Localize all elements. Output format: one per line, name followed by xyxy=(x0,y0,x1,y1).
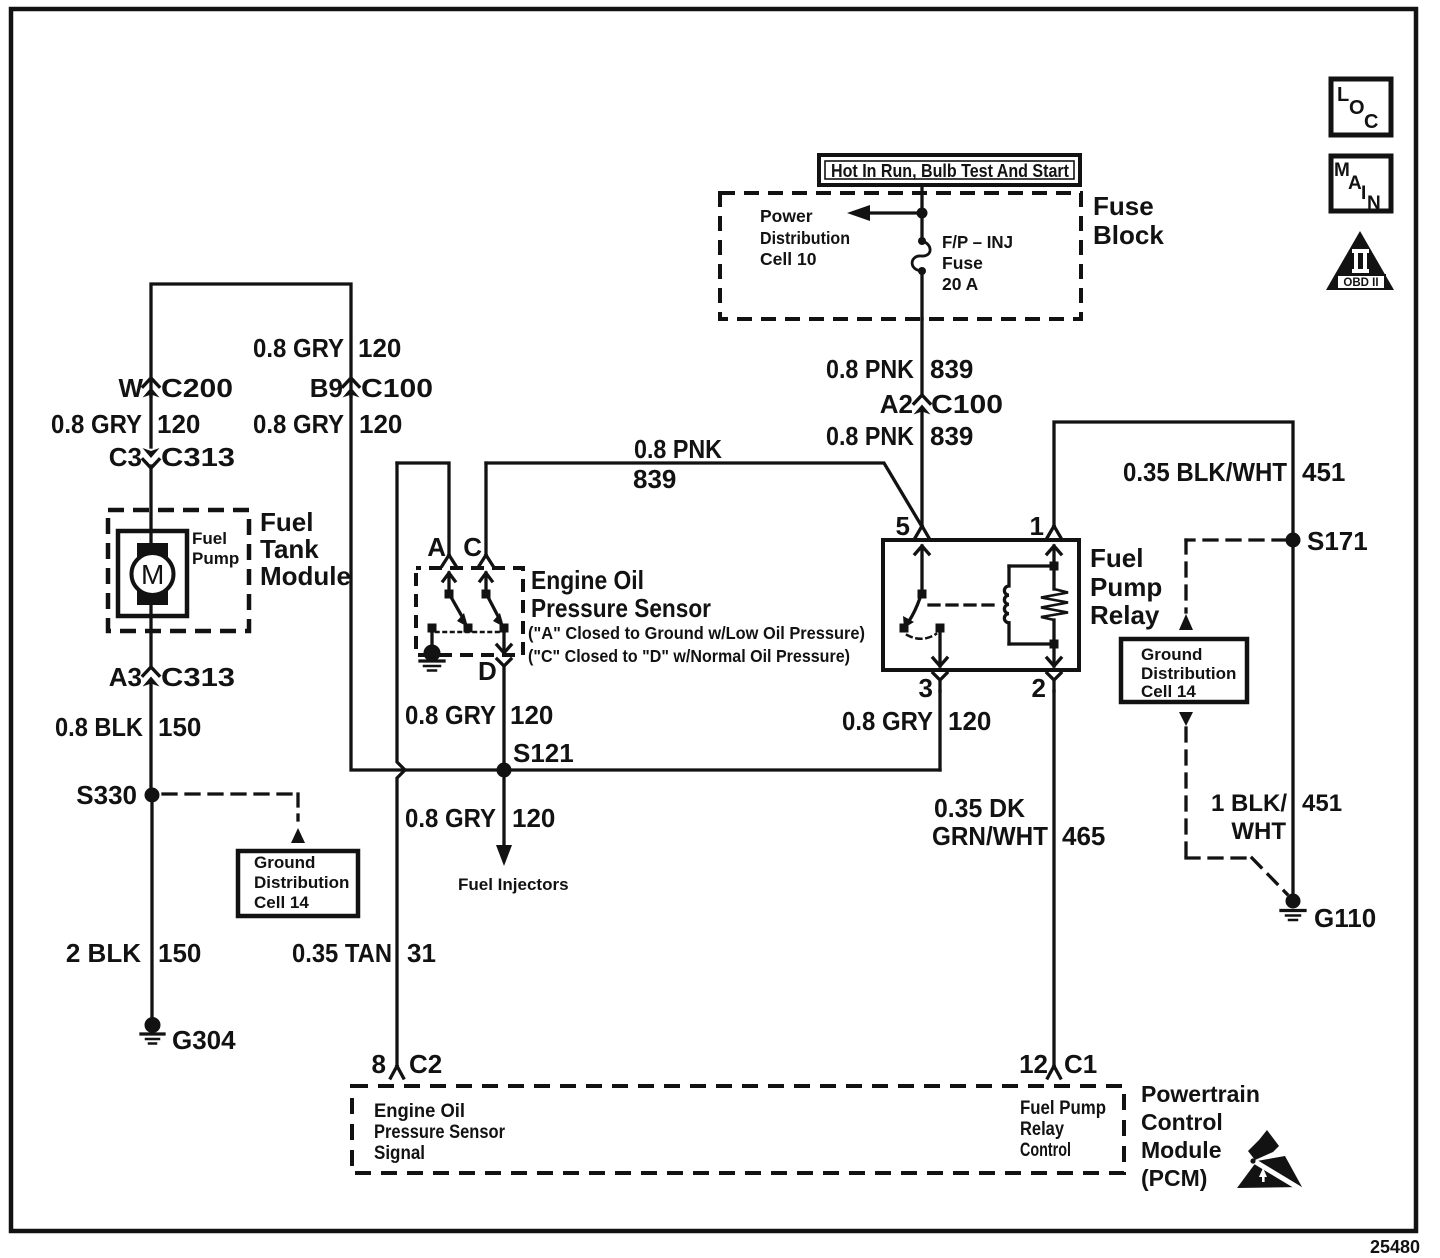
connector C3 C313 xyxy=(109,442,235,472)
svg-text:0.8 BLK: 0.8 BLK xyxy=(55,712,143,742)
ground G110 xyxy=(1281,894,1376,934)
svg-text:Cell 14: Cell 14 xyxy=(1141,682,1196,701)
svg-text:2: 2 xyxy=(1032,673,1046,703)
svg-text:O: O xyxy=(1349,97,1365,119)
svg-text:A: A xyxy=(427,532,446,562)
svg-text:C313: C313 xyxy=(161,442,235,472)
svg-text:N: N xyxy=(1367,193,1381,214)
connector pin 12 C1 (PCM) xyxy=(1019,1049,1097,1079)
svg-text:150: 150 xyxy=(158,712,201,742)
splice S121 xyxy=(497,738,574,778)
svg-text:M: M xyxy=(141,559,164,590)
sensor switch C (arrow up + contact to D) xyxy=(480,573,509,633)
svg-text:Block: Block xyxy=(1093,220,1164,250)
svg-text:C1: C1 xyxy=(1064,1049,1097,1079)
svg-text:C313: C313 xyxy=(161,662,235,692)
svg-text:Relay: Relay xyxy=(1020,1119,1064,1140)
LOC legend box xyxy=(1331,79,1391,135)
svg-text:839: 839 xyxy=(930,354,973,384)
relay actuation dashed line xyxy=(929,603,997,606)
pin 3 connector xyxy=(919,673,947,703)
svg-text:120: 120 xyxy=(948,706,991,736)
wire to fuel injectors with arrow xyxy=(496,770,512,866)
svg-text:W: W xyxy=(118,373,143,403)
svg-text:("A" Closed to Ground w/Low Oi: ("A" Closed to Ground w/Low Oil Pressure… xyxy=(528,623,865,643)
dashed reference S171 to ground distribution xyxy=(1179,540,1286,630)
svg-text:Pump: Pump xyxy=(1090,572,1162,602)
header box: Hot In Run, Bulb Test And Start xyxy=(819,155,1080,185)
svg-text:Engine Oil: Engine Oil xyxy=(374,1101,465,1122)
svg-text:G304: G304 xyxy=(172,1025,236,1055)
relay resistor (pin 1 to pin 2) xyxy=(1041,546,1068,666)
svg-text:C100: C100 xyxy=(361,373,433,403)
ground G304 xyxy=(141,1017,236,1055)
svg-text:Distribution: Distribution xyxy=(254,873,349,892)
pin D arrow and connector xyxy=(478,632,511,770)
wire pin 3 to S121 run xyxy=(938,691,941,770)
svg-text:120: 120 xyxy=(157,409,200,439)
connector A2 C100 xyxy=(880,389,1003,419)
wire from header into fuse block xyxy=(920,185,923,213)
svg-text:C: C xyxy=(463,532,482,562)
fuel tank module dashed box xyxy=(108,510,249,631)
svg-text:0.8 PNK: 0.8 PNK xyxy=(826,421,914,451)
sensor switch A (arrow up + contact) xyxy=(443,573,473,633)
svg-text:31: 31 xyxy=(407,938,436,968)
svg-text:2 BLK: 2 BLK xyxy=(66,938,141,968)
connector pin 8 C2 (PCM) xyxy=(372,1049,443,1079)
svg-text:OBD II: OBD II xyxy=(1343,277,1378,289)
wire sensor A-pin jog xyxy=(397,463,449,556)
svg-text:120: 120 xyxy=(359,409,402,439)
svg-text:(PCM): (PCM) xyxy=(1141,1165,1207,1191)
svg-text:Module: Module xyxy=(260,561,351,591)
svg-text:150: 150 xyxy=(158,938,201,968)
svg-text:0.35 DK: 0.35 DK xyxy=(934,793,1025,823)
svg-text:Fuel: Fuel xyxy=(260,507,313,537)
svg-text:120: 120 xyxy=(358,333,401,363)
svg-text:F/P – INJ: F/P – INJ xyxy=(942,232,1013,252)
svg-text:839: 839 xyxy=(633,464,676,494)
svg-text:Fuel Injectors: Fuel Injectors xyxy=(458,875,569,894)
svg-text:0.8 GRY: 0.8 GRY xyxy=(405,803,496,833)
fuel pump relay box xyxy=(883,540,1079,670)
wire motor to A3 connector xyxy=(149,602,152,668)
pin 1 connector xyxy=(1030,511,1061,541)
svg-text:12: 12 xyxy=(1019,1049,1048,1079)
pin C connector xyxy=(463,532,493,566)
svg-text:0.35 BLK/WHT: 0.35 BLK/WHT xyxy=(1123,457,1287,487)
svg-text:Tank: Tank xyxy=(260,534,319,564)
svg-text:Cell 14: Cell 14 xyxy=(254,893,309,912)
svg-text:Engine Oil: Engine Oil xyxy=(531,565,644,595)
svg-text:Ground: Ground xyxy=(1141,645,1202,664)
OBD II triangle symbol xyxy=(1326,231,1394,290)
ground distribution cell 14 box (right) xyxy=(1121,639,1247,702)
svg-text:0.8 GRY: 0.8 GRY xyxy=(842,706,933,736)
wire into fuel tank module xyxy=(149,466,152,548)
svg-text:Pressure Sensor: Pressure Sensor xyxy=(531,593,711,623)
wire 0.35 BLK/WHT 451 top run xyxy=(1054,422,1293,897)
wire 2 BLK 150 xyxy=(150,795,153,1018)
svg-text:Fuel Pump: Fuel Pump xyxy=(1020,1098,1106,1119)
ESD sensitive device symbol xyxy=(1237,1130,1302,1190)
splice S330 xyxy=(76,780,159,810)
svg-text:Pump: Pump xyxy=(192,549,239,568)
svg-text:Cell 10: Cell 10 xyxy=(760,249,817,269)
svg-text:20 A: 20 A xyxy=(942,274,979,294)
connector B9 C100 xyxy=(310,373,433,403)
wire 0.8 GRY 120 (B9 to S121 run) xyxy=(351,396,940,770)
relay switch from pin 5 xyxy=(900,546,930,633)
svg-text:3: 3 xyxy=(919,673,933,703)
svg-text:1 BLK/: 1 BLK/ xyxy=(1211,790,1287,817)
dotted link between contacts xyxy=(436,631,500,634)
svg-text:Fuse: Fuse xyxy=(1093,191,1154,221)
svg-text:465: 465 xyxy=(1062,821,1105,851)
svg-text:S330: S330 xyxy=(76,780,137,810)
svg-text:A3: A3 xyxy=(109,662,142,692)
svg-text:I: I xyxy=(1361,183,1366,204)
svg-text:Fuse: Fuse xyxy=(942,253,983,273)
svg-text:0.8 PNK: 0.8 PNK xyxy=(826,354,914,384)
svg-text:0.8 PNK: 0.8 PNK xyxy=(634,434,722,464)
wire 0.35 DK GRN/WHT 465 xyxy=(1052,691,1055,1066)
ground distribution cell 14 box (left) xyxy=(238,851,358,916)
arrow to Power Distribution Cell 10 xyxy=(847,205,922,221)
svg-text:Powertrain: Powertrain xyxy=(1141,1081,1260,1107)
svg-text:S121: S121 xyxy=(513,738,574,768)
wire 0.8 PNK 839 to relay pin 5 xyxy=(920,412,923,526)
wire 0.35 TAN 31 vertical with crossover jog xyxy=(397,463,404,1066)
svg-text:Control: Control xyxy=(1020,1140,1071,1161)
dashed reference ground distribution to G110 xyxy=(1179,712,1287,894)
svg-text:A2: A2 xyxy=(880,389,913,419)
pin A connector xyxy=(427,532,456,566)
powertrain control module dashed box xyxy=(352,1086,1124,1173)
wire 0.8 GRY 120 left xyxy=(149,395,152,447)
relay switch lower contact to pin 3 xyxy=(907,624,947,667)
fuse F/P-INJ 20A symbol xyxy=(912,213,930,319)
svg-text:839: 839 xyxy=(930,421,973,451)
svg-text:L: L xyxy=(1337,84,1349,106)
relay coil xyxy=(1004,562,1058,649)
svg-text:0.8 GRY: 0.8 GRY xyxy=(51,409,142,439)
svg-text:Fuel: Fuel xyxy=(192,529,227,548)
wire top loop (0.8 GRY 120) xyxy=(151,284,351,396)
svg-text:120: 120 xyxy=(510,700,553,730)
svg-text:D: D xyxy=(478,656,497,686)
connector W C200 xyxy=(118,373,233,403)
svg-text:Control: Control xyxy=(1141,1109,1223,1135)
fuel pump motor M xyxy=(118,531,187,616)
svg-text:Pressure Sensor: Pressure Sensor xyxy=(374,1122,506,1143)
splice S171 xyxy=(1286,526,1368,556)
svg-text:Fuel: Fuel xyxy=(1090,543,1143,573)
svg-text:C: C xyxy=(1364,111,1378,133)
wire 0.8 PNK 839 from fuse block down xyxy=(920,319,923,396)
wire sensor C-pin drop xyxy=(484,463,487,556)
svg-text:5: 5 xyxy=(896,511,910,541)
svg-text:120: 120 xyxy=(512,803,555,833)
svg-text:0.8 GRY: 0.8 GRY xyxy=(253,333,344,363)
wire 0.8 BLK 150 xyxy=(149,685,152,790)
svg-text:25480: 25480 xyxy=(1370,1237,1420,1257)
svg-text:Module: Module xyxy=(1141,1137,1222,1163)
pin 5 connector xyxy=(896,511,929,541)
fuse block dashed box xyxy=(720,193,1081,319)
svg-text:0.8 GRY: 0.8 GRY xyxy=(253,409,344,439)
dashed reference S330 to ground distribution xyxy=(163,794,305,843)
pin 2 connector xyxy=(1032,673,1061,703)
svg-text:C200: C200 xyxy=(161,373,233,403)
svg-text:Distribution: Distribution xyxy=(1141,664,1236,683)
svg-text:WHT: WHT xyxy=(1231,818,1286,845)
MAIN legend box xyxy=(1331,156,1391,214)
engine oil pressure sensor dashed box xyxy=(416,568,523,655)
sensor ground contact xyxy=(428,624,437,633)
svg-text:Signal: Signal xyxy=(374,1143,425,1164)
sensor internal ground xyxy=(420,632,444,671)
svg-text:451: 451 xyxy=(1302,457,1345,487)
svg-text:0.8 GRY: 0.8 GRY xyxy=(405,700,496,730)
svg-text:Distribution: Distribution xyxy=(760,228,850,248)
svg-text:Power: Power xyxy=(760,206,813,226)
svg-text:Hot In Run, Bulb Test And Star: Hot In Run, Bulb Test And Start xyxy=(831,161,1069,181)
svg-text:0.35 TAN: 0.35 TAN xyxy=(292,938,392,968)
svg-text:("C" Closed to "D" w/Normal Oi: ("C" Closed to "D" w/Normal Oil Pressure… xyxy=(528,646,850,666)
svg-text:C100: C100 xyxy=(931,389,1003,419)
svg-text:Ground: Ground xyxy=(254,853,315,872)
svg-text:1: 1 xyxy=(1030,511,1044,541)
svg-text:GRN/WHT: GRN/WHT xyxy=(932,821,1048,851)
svg-text:A: A xyxy=(1348,173,1362,194)
svg-text:451: 451 xyxy=(1302,790,1342,817)
svg-text:8: 8 xyxy=(372,1049,386,1079)
svg-text:S171: S171 xyxy=(1307,526,1368,556)
svg-text:Relay: Relay xyxy=(1090,600,1160,630)
svg-text:G110: G110 xyxy=(1314,903,1376,933)
svg-text:B9: B9 xyxy=(310,373,343,403)
svg-text:C3: C3 xyxy=(109,442,142,472)
connector A3 C313 xyxy=(109,662,235,692)
node junction at fuse top xyxy=(917,208,928,219)
wire 0.8 PNK 839 horizontal run xyxy=(486,463,921,525)
svg-text:C2: C2 xyxy=(409,1049,442,1079)
